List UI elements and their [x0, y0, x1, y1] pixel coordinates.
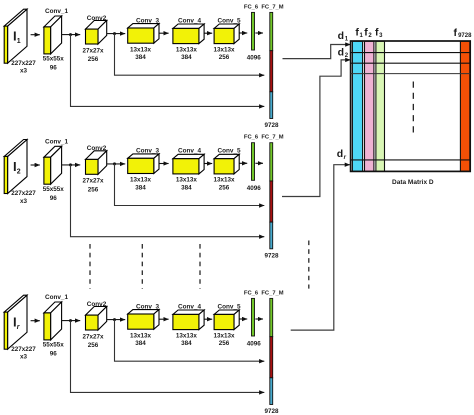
svg-text:9728: 9728	[458, 33, 472, 39]
row separator dashed line 4	[308, 241, 310, 289]
wire d1 from row1 fc7 to matrix	[283, 45, 351, 59]
input I2 label	[13, 159, 21, 176]
network row 1	[4, 4, 284, 129]
data matrix outer frame	[351, 41, 471, 171]
svg-text:1: 1	[17, 38, 21, 45]
matrix column f2 pink	[365, 41, 374, 171]
row separator dashed line 3	[199, 244, 201, 289]
network row 3	[4, 290, 284, 415]
matrix row divider 1	[351, 52, 471, 54]
matrix column f9728 orange	[460, 41, 469, 171]
row separator dashed line 2	[141, 244, 143, 289]
row separator dashed line 1	[89, 244, 91, 289]
label f9728	[454, 27, 473, 39]
matrix column f1 cyan	[352, 41, 362, 171]
svg-text:Data Matrix D: Data Matrix D	[392, 179, 434, 186]
label d1	[338, 30, 349, 42]
svg-text:d: d	[338, 46, 344, 58]
matrix continuation dashed line	[412, 82, 414, 138]
label f1	[355, 26, 363, 39]
label d2	[338, 46, 349, 59]
wire d2 from row2 fc7 to matrix	[282, 60, 350, 197]
matrix column f3 green	[376, 41, 385, 171]
label f2	[364, 26, 372, 39]
matrix row divider last	[351, 159, 471, 161]
svg-text:2: 2	[17, 169, 21, 176]
svg-text:d: d	[337, 148, 343, 160]
input Ir label	[13, 315, 21, 332]
svg-text:d: d	[338, 30, 344, 42]
wire dr from row3 fc7 to matrix	[291, 165, 350, 330]
input I1 label	[13, 29, 21, 46]
label dr	[337, 148, 347, 161]
matrix row divider 3	[351, 73, 471, 75]
label f3	[375, 26, 383, 39]
network row 2	[4, 135, 284, 260]
svg-text:f: f	[454, 27, 458, 39]
matrix row divider 2	[351, 62, 471, 64]
